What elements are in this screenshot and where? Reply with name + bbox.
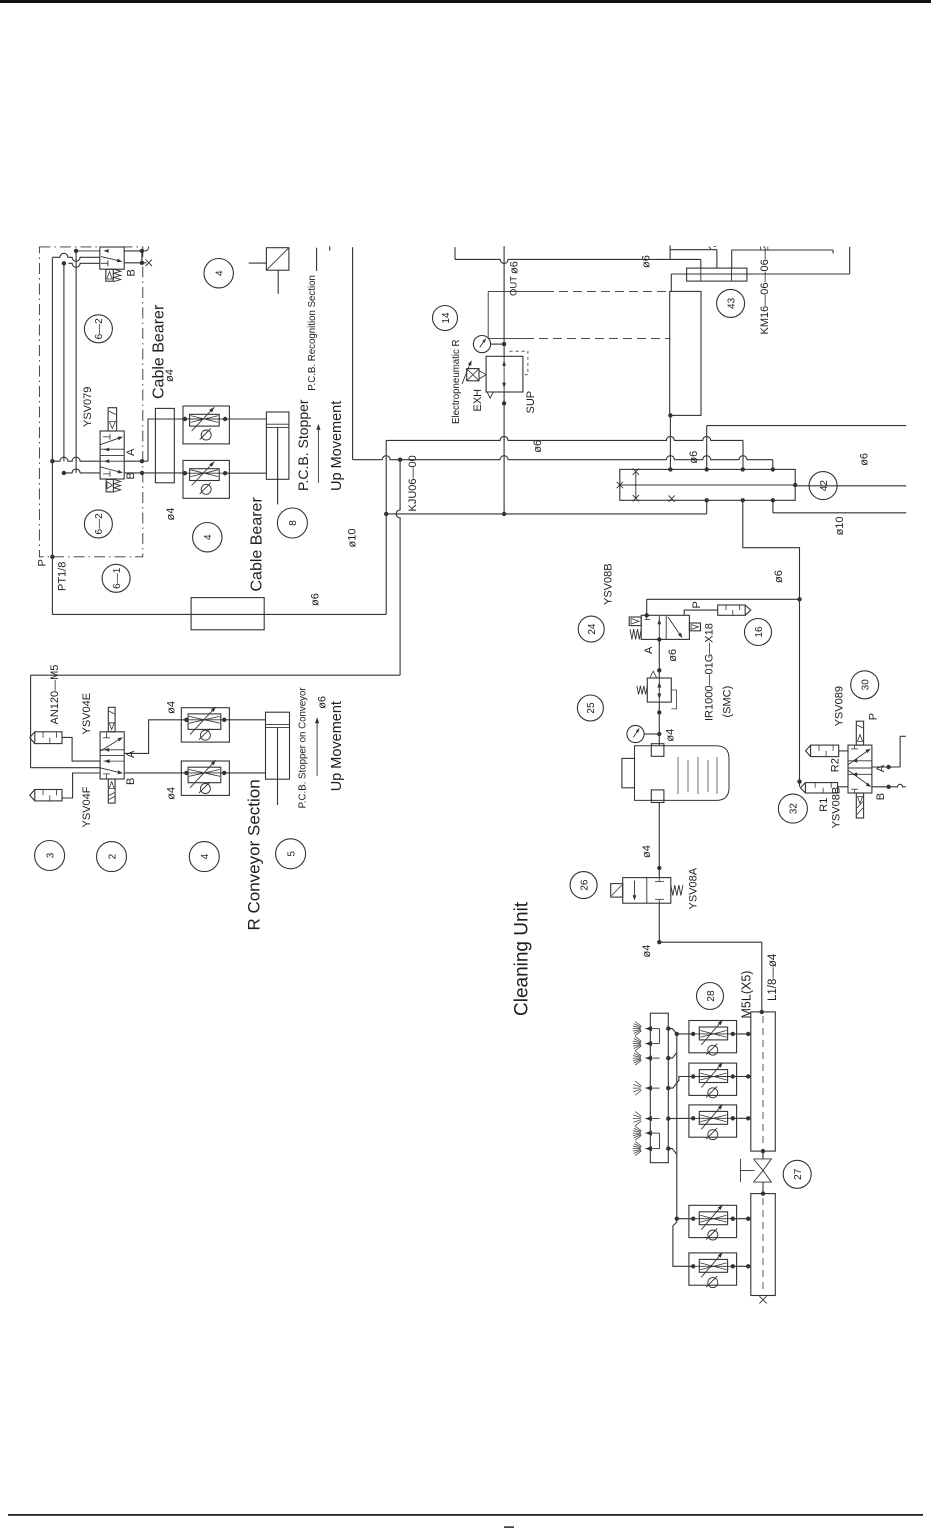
- svg-text:A: A: [125, 448, 137, 456]
- label phi6 a: [310, 593, 322, 606]
- dashed box bottom: [488, 337, 670, 339]
- wire gauge2 stub: [644, 733, 659, 735]
- node FC8 l: [184, 718, 188, 722]
- plug X header: [759, 1296, 766, 1303]
- flow control FC7: [689, 1252, 737, 1287]
- svg-text:P.C.B. Stopper: P.C.B. Stopper: [295, 399, 311, 491]
- label P 24: [691, 601, 703, 608]
- wire YSV079 portA: [124, 460, 148, 462]
- circle 25: [577, 695, 603, 721]
- node FC6 l: [691, 1217, 695, 1221]
- wire unit3 jog: [668, 1077, 693, 1089]
- wire valve1 port3: [69, 263, 100, 267]
- node tall rect out: [668, 413, 672, 417]
- wire R2-valve: [839, 750, 848, 752]
- node top wire A: [62, 261, 66, 265]
- svg-text:16: 16: [754, 626, 765, 638]
- label phi6 c: [773, 570, 785, 583]
- circle 26: [570, 872, 597, 899]
- wire left edge drop: [30, 675, 32, 768]
- svg-text:L1/8—ø4: L1/8—ø4: [767, 953, 779, 1001]
- label YSV089: [834, 686, 846, 726]
- wire FC1-cyl: [225, 418, 266, 420]
- wire B 30: [872, 784, 906, 787]
- svg-text:YSV08B: YSV08B: [603, 563, 615, 605]
- svg-text:ø6: ø6: [509, 261, 521, 274]
- wire L2: [670, 246, 717, 269]
- wire tall rect down: [669, 415, 671, 469]
- wire phi6 down right: [799, 599, 801, 787]
- flow control FC5: [689, 1104, 737, 1139]
- svg-text:P: P: [868, 713, 880, 720]
- node riser top: [675, 1032, 679, 1036]
- label phi6 lineA: [532, 440, 544, 453]
- manifold body: [620, 469, 795, 500]
- wire A down: [658, 639, 660, 678]
- wire to cleaning: [659, 942, 762, 1012]
- node valve24 top: [645, 613, 649, 617]
- wire A 30: [872, 736, 906, 767]
- valve YSV079 spring: [114, 479, 121, 492]
- valve SV1 body: [100, 247, 124, 269]
- label OUT: [509, 276, 520, 296]
- flow control FC6: [689, 1205, 737, 1240]
- wire vertical x75.6: [75, 251, 77, 473]
- node FC1 r: [223, 417, 227, 421]
- recognition cylinder: [266, 248, 289, 294]
- wire lineA drop: [742, 440, 744, 469]
- valve YSV08B body: [641, 615, 689, 639]
- filter head: [622, 758, 635, 787]
- header rect lower: [751, 1194, 776, 1296]
- svg-text:4: 4: [203, 534, 214, 540]
- circle 6-2 upper: [84, 315, 112, 343]
- node FC2 l: [183, 471, 187, 475]
- valve YSV04EF cell1: [101, 732, 125, 752]
- label circle 28: [697, 983, 724, 1010]
- wire valve1 out link: [141, 251, 143, 263]
- svg-text:25: 25: [586, 702, 597, 714]
- svg-text:ø6: ø6: [532, 440, 544, 453]
- label R1: [818, 798, 830, 812]
- wire YSV079 left B: [64, 469, 100, 473]
- svg-text:ø6: ø6: [859, 453, 871, 466]
- dashed box top: [488, 290, 670, 292]
- svg-text:R Conveyor Section: R Conveyor Section: [245, 779, 264, 930]
- wire FC6 out: [733, 1217, 751, 1221]
- nozzle 3: [633, 1051, 660, 1065]
- svg-text:Cleaning Unit: Cleaning Unit: [512, 901, 533, 1016]
- svg-text:42: 42: [819, 480, 830, 492]
- wire OUT up: [503, 246, 505, 356]
- node FC6 r: [731, 1217, 735, 1221]
- wire branch x352: [352, 247, 354, 460]
- flow control FC4: [689, 1063, 737, 1098]
- label phi4 26b: [641, 945, 653, 958]
- label A 30: [875, 764, 887, 772]
- node unit1 out: [666, 1026, 670, 1030]
- nozzle 2: [633, 1037, 660, 1051]
- label SMC: [722, 686, 734, 718]
- wire YSV079 left A: [52, 457, 100, 461]
- valve YSV04EF cell2: [101, 759, 125, 779]
- manifold plug bar: [635, 471, 637, 499]
- node valve1 outA: [140, 249, 144, 253]
- wire FC4 out: [733, 1074, 751, 1078]
- valve SV1 solenoid: [106, 269, 114, 281]
- valve YSV079 cell1 path: [101, 434, 125, 452]
- svg-text:EXH: EXH: [472, 389, 484, 412]
- regulator dashed pilot box: [510, 351, 528, 375]
- svg-text:PT1/8: PT1/8: [57, 562, 69, 591]
- wire supply bottom run: [52, 613, 386, 615]
- circle 14: [433, 306, 458, 331]
- wire FC2-cyl: [225, 472, 266, 474]
- regulator pilot solenoid: [467, 369, 486, 381]
- node A1: [657, 637, 661, 641]
- header rect upper: [751, 1012, 776, 1151]
- filter liquid: [678, 757, 717, 794]
- node FC9 r: [222, 771, 226, 775]
- manifold port dots bottom: [705, 498, 776, 502]
- node A 30: [886, 765, 890, 769]
- valve YSV079 body: [100, 431, 124, 479]
- valve YSV089 top pilot: [856, 721, 863, 745]
- muffler R1: [800, 783, 837, 793]
- node top wire B: [74, 249, 78, 253]
- regulator IR bracket: [671, 690, 676, 709]
- svg-text:(SMC): (SMC): [722, 686, 734, 718]
- wire conveyor supply: [30, 674, 400, 676]
- valve YSV079 cell2 path: [101, 459, 125, 477]
- label YSV08B: [603, 563, 615, 605]
- svg-text:ø6: ø6: [317, 696, 329, 709]
- wire tick 455: [454, 247, 456, 259]
- wire 513 run: [386, 513, 707, 515]
- page top rule: [0, 0, 931, 3]
- svg-text:SUP: SUP: [525, 391, 537, 414]
- svg-text:Cable Bearer: Cable Bearer: [151, 304, 168, 399]
- wire valve1 outA: [124, 247, 148, 251]
- wire line A: [386, 436, 743, 440]
- nozzle 7: [633, 1142, 660, 1156]
- svg-text:2: 2: [107, 853, 118, 859]
- label phi4 top: [164, 369, 176, 382]
- svg-text:8: 8: [288, 520, 299, 526]
- wire valve1 port2: [52, 253, 99, 261]
- flow control FC1: [183, 406, 229, 444]
- node filter out: [657, 866, 661, 870]
- svg-text:30: 30: [861, 679, 872, 691]
- regulator body: [486, 356, 523, 392]
- circle 4 conv: [189, 842, 219, 872]
- wire P muffler: [684, 610, 718, 615]
- circle 42: [809, 472, 837, 500]
- svg-text:ø4: ø4: [166, 787, 178, 800]
- wire muffler2: [62, 773, 100, 798]
- svg-text:YSV08A: YSV08A: [688, 867, 700, 909]
- regulator IR spring: [637, 686, 647, 695]
- label A 24: [643, 646, 655, 654]
- label B YSV079: [125, 472, 137, 479]
- valve YSV079 solenoid: [106, 479, 113, 492]
- wire muffler1: [62, 737, 109, 763]
- wire top right riser: [849, 247, 851, 274]
- cylinder conveyor stopper: [266, 712, 290, 805]
- label phi6 tee: [641, 255, 653, 268]
- valve SV1 spring: [114, 269, 121, 281]
- label YSV08B r1: [831, 787, 843, 829]
- text fragment 2: [761, 246, 768, 250]
- svg-text:YSV04E: YSV04E: [81, 693, 93, 735]
- label PT1/8: [57, 562, 69, 591]
- wire FC5 out: [733, 1116, 751, 1120]
- svg-text:KM16—06—06—: KM16—06—06—: [759, 248, 771, 334]
- svg-text:ø4: ø4: [164, 369, 176, 382]
- filter port bottom: [651, 790, 664, 803]
- svg-text:Cable Bearer: Cable Bearer: [249, 497, 266, 592]
- valve YSV04EF body: [100, 732, 124, 779]
- page bottom rule: [8, 1514, 923, 1516]
- svg-text:YSV079: YSV079: [82, 387, 94, 427]
- gauge 25: [627, 725, 644, 742]
- label PCB Stopper 1: [295, 399, 311, 491]
- circle 30: [851, 671, 879, 699]
- svg-text:A: A: [875, 764, 887, 772]
- node FC5 l: [691, 1116, 695, 1120]
- label B conveyor: [125, 778, 137, 785]
- circle 24: [578, 616, 604, 642]
- svg-text:ø10: ø10: [347, 529, 359, 548]
- svg-text:B: B: [125, 778, 137, 785]
- node 513 SUP: [502, 512, 506, 516]
- svg-text:43: 43: [726, 297, 737, 309]
- wire header-valve: [761, 1149, 765, 1159]
- svg-text:R1: R1: [818, 798, 830, 812]
- svg-text:Up Movement: Up Movement: [329, 701, 345, 791]
- circle 6-2 lower: [84, 510, 112, 538]
- node A on border: [140, 459, 144, 463]
- valve YSV089 cell2: [848, 771, 872, 794]
- label SUP: [525, 391, 537, 414]
- valve YSV08B right box: [689, 623, 700, 631]
- gauge 14: [473, 336, 490, 353]
- svg-text:B: B: [125, 472, 137, 479]
- arrow up movement 2: [315, 717, 319, 776]
- nozzle 6: [633, 1126, 660, 1140]
- label phi10 a: [347, 529, 359, 548]
- svg-text:4: 4: [200, 853, 211, 859]
- svg-text:R2: R2: [830, 758, 842, 772]
- node valve1 outB: [140, 261, 144, 265]
- manifold X top: [633, 468, 639, 474]
- tall rect actuator: [670, 291, 701, 415]
- wire L1 drop: [700, 259, 702, 268]
- wire riser x386: [385, 440, 387, 614]
- wire valve24 supply: [647, 599, 800, 615]
- nozzle 5: [633, 1112, 660, 1126]
- wire valve-header2: [761, 1182, 765, 1196]
- manifold X bot1: [633, 495, 639, 501]
- svg-text:28: 28: [706, 990, 717, 1002]
- label YSV04F: [81, 786, 93, 827]
- wire unit4 run: [668, 1117, 693, 1119]
- label PCB Stopper conveyor: [298, 687, 309, 809]
- label L1/8-phi4: [767, 953, 779, 1001]
- label phi4 mid: [165, 508, 177, 521]
- regulator IR1000: [647, 671, 671, 702]
- flow control FC3: [689, 1020, 737, 1055]
- node FC4 r: [731, 1074, 735, 1078]
- label phi4 gauge: [665, 729, 677, 742]
- node manifold out: [793, 483, 797, 487]
- hand valve 27: [741, 1159, 772, 1182]
- node R1 supply: [797, 779, 801, 783]
- wire manifold through drop: [773, 500, 906, 513]
- label phi6 conv: [317, 696, 329, 709]
- svg-text:A: A: [643, 646, 655, 654]
- label B 30: [875, 793, 887, 800]
- cable bearer rect 1: [155, 408, 174, 482]
- tick recognition: [329, 246, 331, 250]
- label Up Movement 1: [329, 401, 345, 491]
- page number dash: [504, 1526, 514, 1528]
- valve SV1 flow path: [101, 257, 122, 263]
- circle 6-1: [102, 564, 130, 592]
- valve SV1 blocked port: [101, 260, 108, 266]
- cable bearer rect 2: [191, 598, 264, 630]
- svg-text:6—2: 6—2: [94, 318, 105, 340]
- circle 8: [277, 508, 307, 538]
- leader recognition: [316, 248, 318, 271]
- svg-text:24: 24: [587, 623, 598, 635]
- node FC1 l: [183, 417, 187, 421]
- svg-text:M5L(X5): M5L(X5): [740, 971, 754, 1019]
- wire FC8-cyl: [224, 719, 265, 721]
- node FC3 r: [731, 1032, 735, 1036]
- node 26 out: [657, 940, 661, 944]
- svg-text:KJU06—00: KJU06—00: [407, 455, 419, 511]
- wire tee left drop: [670, 274, 672, 291]
- label YSV079: [82, 387, 94, 427]
- filter port top: [651, 744, 664, 757]
- wire 42 line: [795, 485, 906, 487]
- wire YSV04 B: [124, 772, 186, 774]
- muffler AN120 top: [30, 732, 62, 744]
- svg-text:YSV08B: YSV08B: [831, 787, 843, 829]
- valve YSV08A arrow: [633, 881, 637, 901]
- label M5L(X5): [740, 971, 754, 1019]
- wire L3: [732, 250, 833, 268]
- label phi6 24: [667, 649, 679, 662]
- node YSV079 exh: [62, 471, 66, 475]
- manifold X bot2: [668, 495, 674, 501]
- nozzle 1: [633, 1022, 660, 1036]
- wire FC3 out: [733, 1032, 751, 1036]
- svg-text:ø6: ø6: [310, 593, 322, 606]
- label B valve1: [126, 269, 138, 276]
- label phi6 lineB: [688, 451, 700, 464]
- dashed enclosure (6-1 box): [39, 247, 142, 557]
- svg-text:YSV089: YSV089: [834, 686, 846, 726]
- regulator EXH triangle: [487, 392, 493, 398]
- circle 2: [97, 842, 127, 872]
- circle 16: [745, 619, 772, 646]
- node B on border: [140, 471, 144, 475]
- wire vertical x63.9: [63, 263, 65, 461]
- svg-text:6—1: 6—1: [112, 567, 123, 589]
- wire FC7 out: [733, 1264, 751, 1268]
- label Cable Bearer 1: [151, 304, 168, 399]
- circle 43: [717, 289, 745, 317]
- nozzle pair bracket 2: [659, 1133, 661, 1149]
- valve YSV04E pilot: [108, 707, 115, 732]
- wire SUP down: [503, 392, 505, 514]
- node A2: [657, 668, 661, 672]
- svg-text:4: 4: [215, 270, 226, 276]
- tee fitting KM16: [687, 268, 747, 281]
- flow control FC2: [183, 460, 229, 498]
- node P junction: [50, 555, 54, 559]
- node FC8 r: [222, 718, 226, 722]
- node reg out: [657, 710, 661, 714]
- svg-text:P.C.B. Stopper on Conveyor: P.C.B. Stopper on Conveyor: [298, 687, 309, 809]
- svg-text:26: 26: [579, 879, 590, 891]
- valve YSV089 cell1: [848, 745, 872, 764]
- svg-text:B: B: [126, 269, 138, 276]
- wire R1-valve: [838, 786, 848, 788]
- wire out run right: [455, 259, 701, 263]
- label Up Movement 2: [329, 701, 345, 791]
- node FC3 l: [691, 1032, 695, 1036]
- flow control FC8: [181, 707, 229, 742]
- svg-text:YSV04F: YSV04F: [81, 786, 93, 827]
- label R2: [830, 758, 842, 772]
- svg-text:A: A: [125, 750, 137, 758]
- label AN120-M5: [49, 665, 61, 725]
- wire unit5 jog: [668, 1149, 677, 1155]
- svg-text:P: P: [37, 559, 49, 566]
- valve YSV079 top pilot: [108, 408, 117, 431]
- circle 27: [783, 1160, 811, 1188]
- label Cleaning Unit: [512, 901, 533, 1016]
- regulator adjust arrow: [462, 360, 472, 384]
- svg-text:ø6: ø6: [688, 451, 700, 464]
- plug X valve1: [146, 260, 152, 266]
- circle 4 top: [204, 259, 233, 288]
- svg-text:ø6: ø6: [667, 649, 679, 662]
- wire valve1 outB: [124, 262, 146, 264]
- label PCB Recognition Section: [307, 275, 318, 391]
- wire unit1 jog: [668, 1029, 693, 1034]
- wire port1 up: [707, 426, 907, 470]
- wire valve1 port1: [76, 249, 109, 253]
- label KM16-06-06-: [759, 248, 771, 334]
- cylinder PCB stopper: [266, 412, 289, 504]
- svg-text:P.C.B. Recognition Section: P.C.B. Recognition Section: [307, 275, 318, 391]
- wire line B: [353, 456, 773, 460]
- svg-text:Up Movement: Up Movement: [329, 401, 345, 491]
- label phi6 out: [509, 261, 521, 274]
- node gauge2: [657, 732, 661, 736]
- valve YSV08A actuator: [611, 884, 623, 898]
- label IR1000-01G-X18: [704, 623, 716, 721]
- muffler AN120 bottom: [30, 790, 62, 801]
- muffler 16: [718, 605, 751, 615]
- label A YSV079: [125, 448, 137, 456]
- node phi6 junction: [797, 597, 801, 601]
- circle 32: [778, 794, 807, 823]
